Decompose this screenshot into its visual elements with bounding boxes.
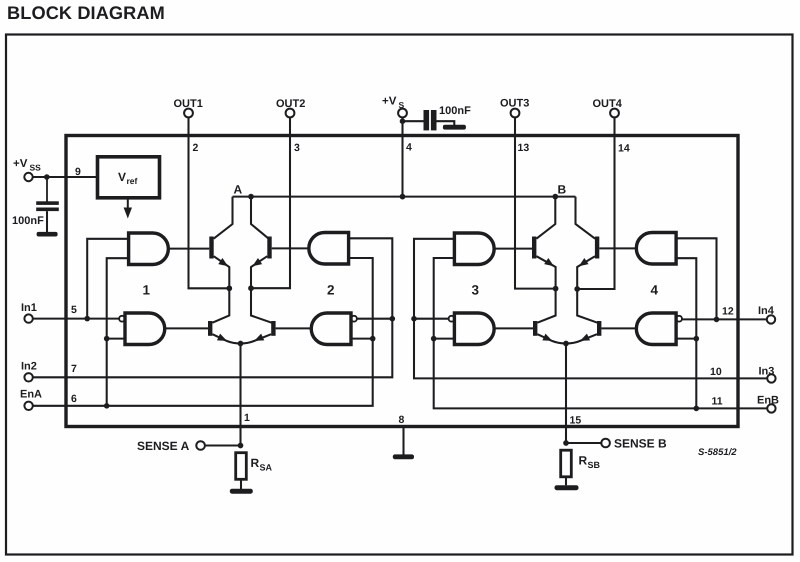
terminal EnB pin 11 [767,404,775,412]
svg-text:2: 2 [193,142,199,154]
svg-text:SB: SB [588,460,601,470]
and-gate 2 upper (mirrored) [309,233,349,265]
svg-text:A: A [234,183,243,197]
and-gate 1 lower (inverting input) [125,313,165,345]
junction at cap tap [400,118,406,124]
junction In1 [84,316,90,322]
wire In3 across to gate3 inputs [414,239,767,379]
svg-text:In4: In4 [758,305,775,317]
wire EnA to gate1 inputs [107,258,129,406]
terminal OUT2 pin 3 [286,109,295,118]
and-gate 3 lower (inverting input) [454,313,494,345]
svg-text:4: 4 [406,142,412,154]
wire +Vs down to supply rail [401,117,403,196]
junction OUT1 node [226,285,232,291]
and-gate 2 lower (mirrored, inverting input) [311,313,351,345]
terminal SENSE B [601,439,610,448]
wire EnA across to gate2 lower inputs [33,258,373,406]
wire In2 across to gate2 inputs [33,238,393,377]
transistor Q6 (bridge B upper right) [576,197,596,239]
svg-text:SS: SS [30,163,42,173]
svg-text:OUT1: OUT1 [174,98,203,110]
svg-text:1: 1 [143,283,151,298]
wire gate3 upper output to Q5 base [494,248,532,250]
svg-text:R: R [251,456,260,470]
wire gate3 lower output to Q7 base [494,327,533,329]
wire bridge A to sense A [239,344,241,446]
svg-text:SENSE B: SENSE B [614,437,667,451]
label +Vss [13,158,41,173]
wire to gate3 bubble [414,318,449,320]
svg-text:7: 7 [71,363,77,375]
svg-text:In1: In1 [21,302,37,314]
ground (left cap) [37,232,58,237]
wire gate4 upper output to Q6 base [599,247,636,249]
wire RSA to ground [240,479,242,489]
wire to gate2 bubble [357,318,392,320]
ground pin 8 [393,454,414,459]
svg-text:EnB: EnB [757,395,779,407]
wire OUT4 down to bridge B right output node [577,117,614,289]
svg-text:S-5851/2: S-5851/2 [698,447,737,458]
svg-text:10: 10 [710,366,722,378]
terminal In4 pin 12 [767,315,775,323]
svg-text:4: 4 [651,283,659,298]
capacitor 100nF (left) [46,177,48,202]
wire to gate1 lower input [107,338,125,340]
svg-text:R: R [579,454,588,468]
svg-text:11: 11 [712,396,723,408]
terminal OUT3 pin 13 [511,109,520,118]
svg-text:V: V [118,170,126,184]
svg-text:B: B [558,183,567,197]
node B [552,194,558,200]
and-gate 3 upper [454,233,494,265]
junction EnA at gate2 lower input [370,336,376,342]
svg-text:S: S [399,100,405,110]
wire RSB to ground [565,477,567,486]
svg-text:SA: SA [260,463,273,473]
wire OUT2 down to bridge A right output node [251,117,290,288]
terminal EnA pin 6 [24,402,32,410]
terminal In1 pin 5 [24,314,32,322]
wire sense B [566,442,601,444]
junction EnB at gate3 lower input [431,336,437,342]
terminal OUT4 pin 14 [610,109,619,118]
wire sense A [205,444,241,446]
wire OUT1 down to bridge A left output node [189,117,230,288]
svg-text:3: 3 [294,142,300,154]
transistor Q1 (bridge A upper left) [214,197,233,239]
terminal +Vss [24,173,32,181]
wire gate2 upper output to Q2 base [272,247,309,249]
svg-text:+V: +V [382,96,397,108]
wire EnB to gate4 inputs [676,258,696,408]
wire to gate4 lower input [676,338,696,340]
svg-text:5: 5 [71,304,77,316]
transistor Q3 (bridge A lower left) [208,321,212,336]
svg-text:EnA: EnA [20,389,42,401]
wire EnB across to gate3 lower inputs [434,258,768,408]
resistor RSB [561,450,572,477]
terminal +Vs pin 4 [398,109,407,118]
wire to gate3 lower input [434,338,455,340]
svg-text:OUT2: OUT2 [276,98,305,110]
ground RSB [555,485,579,490]
svg-text:15: 15 [570,415,582,427]
transistor Q4 (bridge A lower right) [271,321,275,336]
svg-text:OUT3: OUT3 [500,98,529,110]
junction sense B [563,440,569,446]
junction on +Vss wire [44,174,50,180]
arrow below Vref [127,198,129,211]
node A [248,194,254,200]
supply rail node A to node B [233,196,576,198]
svg-text:14: 14 [618,143,630,155]
wire pin9 from +Vss to Vref [33,176,98,178]
wire In4 to gate4 upper input [676,238,716,319]
junction EnB at gate4 lower input [694,336,700,342]
svg-text:SENSE A: SENSE A [137,439,190,453]
junction In2 at gate2 bubble line [390,316,396,322]
svg-text:100nF: 100nF [439,105,471,117]
terminal In2 pin 7 [24,373,32,381]
terminal OUT1 pin 2 [184,109,193,118]
svg-text:1: 1 [244,412,250,424]
wire gate2 lower output to Q4 base [276,327,312,329]
capacitor 100nF (top) [403,120,424,122]
junction OUT2 node [248,285,254,291]
transistor Q5 (bridge B upper left) [536,197,555,239]
wire In1 [33,318,119,320]
IC boundary box [66,136,738,427]
wire OUT3 down to bridge B left output node [515,117,556,288]
svg-text:13: 13 [518,142,530,154]
svg-text:3: 3 [472,283,480,298]
svg-text:2: 2 [327,283,335,298]
svg-text:ref: ref [127,176,138,186]
svg-text:+V: +V [13,158,28,170]
junction bridge A emitter node [238,341,244,347]
Vref box U-ref [98,157,160,198]
transistor Q2 (bridge A upper right) [251,197,269,239]
svg-text:8: 8 [399,414,405,426]
wire In1 to gate1 upper input [87,239,128,319]
and-gate 1 upper [129,233,169,265]
terminal SENSE A [196,441,205,450]
wire bridge B to sense B [565,344,567,444]
junction sense A [238,443,244,449]
wire gate4 lower output to Q8 base [601,327,636,329]
wire to gate2 lower input [351,338,373,340]
junction OUT3 node [553,286,559,292]
junction OUT4 node [574,286,580,292]
and-gate 4 upper (mirrored) [636,233,676,265]
resistor RSA [236,453,247,480]
junction EnA vertical 1 [104,403,110,409]
and-gate 4 lower (mirrored, inverting input) [636,313,676,345]
svg-text:6: 6 [71,393,77,405]
svg-text:12: 12 [722,306,734,318]
svg-text:9: 9 [75,166,81,178]
ground RSA [230,489,253,494]
junction bridge B emitter node [563,341,569,347]
junction EnA at gate1 lower input [104,336,110,342]
ground (top cap) [443,125,466,130]
label Vref [118,170,138,186]
transistor Q8 (bridge B lower right) [597,321,601,336]
junction EnB vertical 2 [694,406,700,412]
wire gate1 lower output to Q3 base [165,327,208,329]
wire gate1 upper output to Q1 base [168,248,209,250]
terminal In3 pin 10 [767,374,775,382]
transistor Q7 (bridge B lower left) [533,321,537,336]
svg-text:In3: In3 [759,366,775,378]
wire In4 [682,318,767,320]
svg-text:OUT4: OUT4 [593,98,623,110]
svg-text:In2: In2 [21,361,37,373]
svg-text:100nF: 100nF [12,215,44,227]
junction In3 at gate3 bubble line [411,316,417,322]
junction +Vs on rail [400,194,406,200]
junction In4 [714,317,720,323]
svg-text:BLOCK DIAGRAM: BLOCK DIAGRAM [7,3,165,23]
